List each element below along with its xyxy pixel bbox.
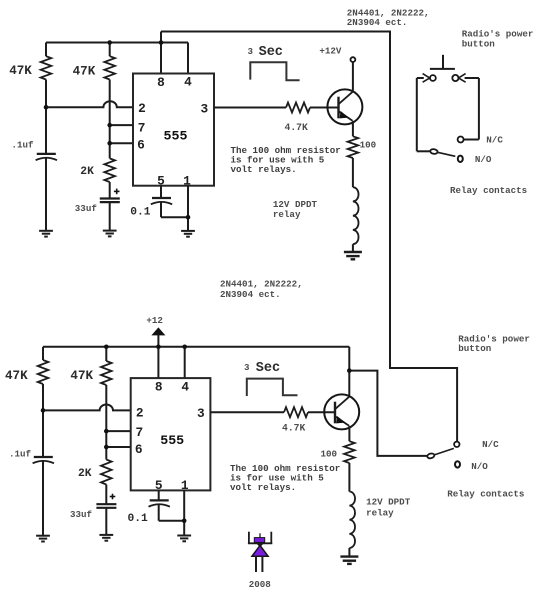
svg-text:relay: relay xyxy=(273,209,301,220)
svg-text:3: 3 xyxy=(201,101,209,116)
svg-text:2N4401, 2N2222,: 2N4401, 2N2222, xyxy=(220,279,303,290)
svg-text:7: 7 xyxy=(138,120,146,135)
svg-text:Sec: Sec xyxy=(259,45,283,60)
svg-text:2K: 2K xyxy=(78,468,92,480)
svg-text:8: 8 xyxy=(157,75,165,90)
svg-text:Relay contacts: Relay contacts xyxy=(447,489,524,500)
svg-text:0.1: 0.1 xyxy=(130,207,151,219)
svg-text:555: 555 xyxy=(164,128,188,143)
svg-text:100: 100 xyxy=(321,449,338,460)
svg-text:N/C: N/C xyxy=(482,439,499,450)
svg-text:4.7K: 4.7K xyxy=(285,122,308,133)
svg-text:100: 100 xyxy=(360,140,377,151)
svg-text:Sec: Sec xyxy=(256,361,280,376)
svg-text:47K: 47K xyxy=(9,64,32,78)
svg-text:3: 3 xyxy=(244,362,250,373)
svg-text:2: 2 xyxy=(138,101,146,116)
svg-text:2K: 2K xyxy=(80,166,94,178)
svg-text:555: 555 xyxy=(160,433,184,448)
svg-text:N/O: N/O xyxy=(471,461,488,472)
svg-text:12V DPDT: 12V DPDT xyxy=(366,496,411,507)
svg-text:4: 4 xyxy=(184,75,192,90)
svg-text:4: 4 xyxy=(181,379,189,394)
svg-text:1: 1 xyxy=(181,478,189,493)
svg-text:0.1: 0.1 xyxy=(128,513,149,525)
svg-text:button: button xyxy=(458,343,491,354)
svg-text:volt relays.: volt relays. xyxy=(230,482,296,493)
svg-text:button: button xyxy=(462,39,495,50)
svg-text:6: 6 xyxy=(135,442,143,457)
svg-text:4.7K: 4.7K xyxy=(282,423,305,434)
svg-text:volt relays.: volt relays. xyxy=(231,164,297,175)
svg-text:8: 8 xyxy=(155,380,163,395)
svg-text:2: 2 xyxy=(136,405,144,420)
svg-text:5: 5 xyxy=(157,174,165,189)
svg-text:33uf: 33uf xyxy=(70,509,93,520)
svg-text:2N3904 ect.: 2N3904 ect. xyxy=(220,289,281,300)
svg-text:+12V: +12V xyxy=(319,46,342,57)
svg-text:47K: 47K xyxy=(73,64,96,78)
svg-text:2008: 2008 xyxy=(249,579,272,590)
svg-text:Relay contacts: Relay contacts xyxy=(450,185,527,196)
svg-text:47K: 47K xyxy=(5,369,28,383)
svg-text:2N3904 ect.: 2N3904 ect. xyxy=(347,17,408,28)
svg-text:47K: 47K xyxy=(70,369,93,383)
svg-text:.1uf: .1uf xyxy=(12,140,35,151)
svg-text:N/O: N/O xyxy=(475,154,492,165)
svg-text:5: 5 xyxy=(155,478,163,493)
svg-text:3: 3 xyxy=(248,46,254,57)
svg-text:.1uf: .1uf xyxy=(9,448,32,459)
svg-text:N/C: N/C xyxy=(486,135,503,146)
svg-text:3: 3 xyxy=(197,406,205,421)
svg-text:7: 7 xyxy=(135,425,143,440)
svg-text:1: 1 xyxy=(183,174,191,189)
svg-text:6: 6 xyxy=(137,137,145,152)
svg-text:33uf: 33uf xyxy=(75,203,98,214)
svg-text:+12: +12 xyxy=(146,315,163,326)
svg-text:relay: relay xyxy=(366,507,394,518)
